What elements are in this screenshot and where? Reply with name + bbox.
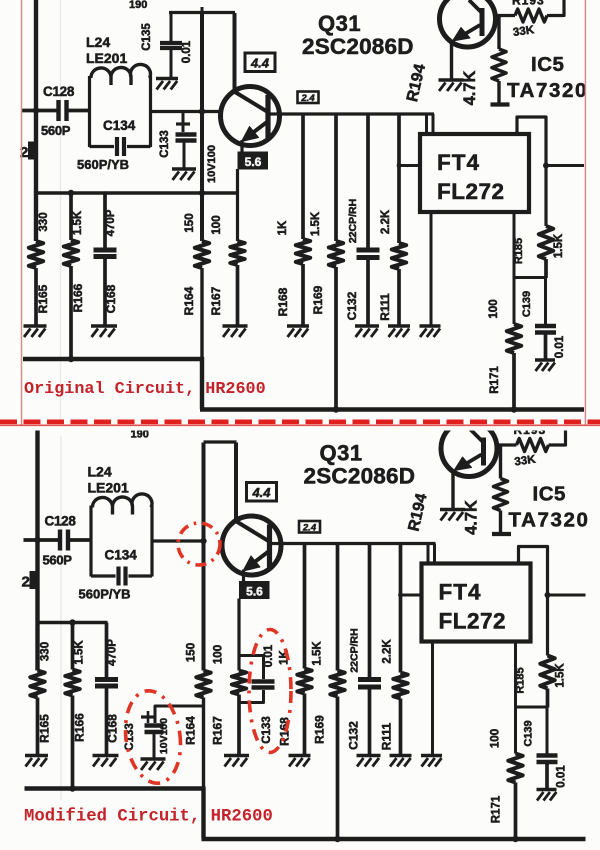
annotation red ellipse around relocated C133 — [120, 687, 186, 787]
svg-text:0.01: 0.01 — [181, 40, 193, 63]
wire tank output extension to Q31 — [203, 110, 222, 113]
annotation red ellipse around C133a — [249, 630, 291, 753]
capacitor C133 elbow wire — [183, 112, 202, 133]
svg-text:Modified Circuit, HR2600: Modified Circuit, HR2600 — [24, 808, 273, 827]
wire rail stub up — [201, 7, 204, 13]
paper fold line bottom — [60, 436, 62, 800]
capacitor C133 relocated elbow wire — [155, 706, 204, 723]
svg-text:Original Circuit, HR2600: Original Circuit, HR2600 — [24, 380, 266, 399]
capacitor C135 — [160, 43, 182, 48]
ground under C135 — [156, 79, 178, 90]
ground under relocated C133 — [141, 759, 166, 770]
ground under C133 — [172, 169, 196, 180]
label C135 — [141, 23, 153, 51]
capacitor C133 — [176, 135, 197, 141]
svg-text:10V100: 10V100 — [206, 145, 218, 183]
annotation red circle at base node — [178, 523, 220, 565]
wire C133 relocated lower lead — [153, 734, 156, 758]
label 10V100 (relocated) — [158, 718, 170, 754]
capacitor C133 relocated — [145, 726, 164, 733]
paper fold line top — [60, 0, 62, 420]
original circuit copy — [20, 0, 588, 413]
annotation red frame left — [21, 0, 23, 425]
wire C133 lower lead — [183, 142, 186, 168]
svg-text:10V100: 10V100 — [158, 718, 170, 754]
label C133 — [159, 130, 171, 158]
wire C135 lower lead — [170, 50, 173, 78]
wire C135 upper lead — [170, 12, 173, 42]
capacitor C133a plates — [252, 682, 275, 688]
wire top rail extension — [169, 11, 203, 14]
label 10V100 (C133 value) — [206, 145, 218, 183]
capacitor C133 relocated polarity mark — [141, 711, 155, 723]
annotation red dashed divider — [0, 419, 600, 424]
label C133a — [261, 716, 273, 744]
annotation red frame right — [584, 0, 586, 425]
annotation red thin divider line — [0, 424, 600, 426]
capacitor C133a parallel with R167 wire — [239, 656, 264, 703]
label 0.01 (C133a value) — [263, 644, 275, 667]
label C133 (relocated) — [124, 723, 136, 751]
wire node y193 extension — [105, 191, 239, 194]
svg-text:C133: C133 — [159, 130, 171, 158]
node R164 y193 junction — [199, 190, 205, 196]
label 0.01 (C135 value) — [181, 40, 193, 63]
svg-text:C133: C133 — [261, 716, 273, 744]
modified circuit copy — [22, 421, 590, 843]
capacitor C133 polarity mark — [176, 119, 190, 130]
svg-text:0.01: 0.01 — [263, 644, 275, 667]
svg-text:C135: C135 — [141, 23, 153, 51]
